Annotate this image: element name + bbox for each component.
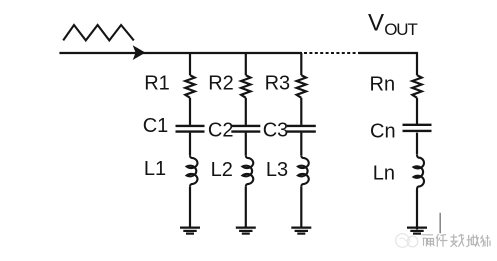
- resistor R2: [241, 75, 250, 98]
- svg-text:Ln: Ln: [373, 162, 395, 184]
- ground branch n: [407, 228, 427, 234]
- inductor L2: [242, 155, 253, 187]
- glyph 1: [422, 235, 435, 247]
- inductor L3: [298, 155, 309, 187]
- svg-text:L1: L1: [144, 158, 166, 180]
- resistor R1: [185, 75, 194, 98]
- watermark separator bar: [439, 213, 441, 234]
- glyph 4: [466, 235, 479, 247]
- svg-text:V: V: [368, 9, 384, 36]
- capacitor C3: [287, 126, 316, 132]
- svg-text:R3: R3: [265, 72, 291, 94]
- svg-text:Rn: Rn: [370, 73, 396, 95]
- wire branch n vertical segments: [416, 98, 418, 230]
- sawtooth input waveform icon: [63, 25, 134, 40]
- svg-text:R2: R2: [208, 72, 234, 94]
- resistor R3: [297, 75, 306, 98]
- wire branch 3 vertical segments: [300, 53, 302, 227]
- svg-text:Cn: Cn: [370, 120, 396, 142]
- svg-text:C2: C2: [208, 119, 234, 141]
- svg-text:OUT: OUT: [384, 20, 417, 39]
- svg-text:C3: C3: [263, 119, 289, 141]
- node VOUT label: [368, 9, 418, 39]
- watermark logo circles: [396, 234, 418, 248]
- capacitor C2: [231, 126, 260, 132]
- wire dashed bus segment: [304, 52, 359, 54]
- glyph 5: [481, 235, 491, 247]
- svg-text:C1: C1: [143, 115, 169, 137]
- wire branch 1 vertical segments: [189, 53, 191, 227]
- inductor L1: [187, 155, 198, 187]
- wire branch 2 vertical segments: [245, 53, 247, 227]
- wire bus right segment to Vout branch: [359, 53, 418, 75]
- svg-text:L2: L2: [211, 159, 233, 181]
- ground branch 2: [236, 228, 256, 234]
- ground branch 1: [180, 228, 200, 234]
- arrowhead on input wire: [133, 45, 146, 60]
- svg-text:R1: R1: [144, 72, 170, 94]
- capacitor C1: [176, 126, 205, 132]
- svg-text:L3: L3: [266, 159, 288, 181]
- ground branch 3: [291, 228, 311, 234]
- inductor Ln: [414, 155, 424, 190]
- capacitor Cn: [403, 125, 432, 131]
- wire main horizontal bus: [59, 52, 302, 54]
- watermark text (stylized strokes): [422, 234, 491, 247]
- glyph 3: [451, 234, 465, 247]
- resistor Rn: [412, 75, 421, 98]
- glyph 2: [436, 234, 448, 247]
